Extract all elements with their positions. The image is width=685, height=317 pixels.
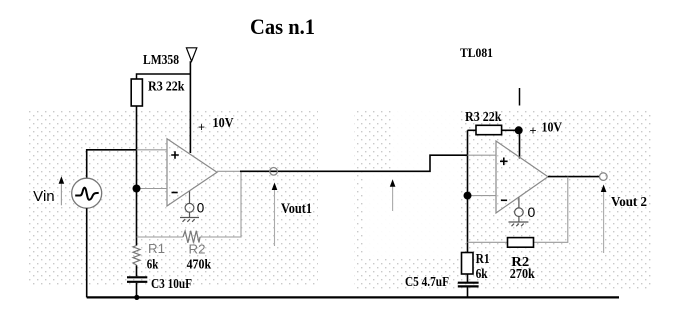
wire R3 right: right lead <box>502 129 519 131</box>
output wire stage 1 to stage 2 <box>240 155 468 171</box>
terminal Vout2 <box>600 173 608 181</box>
ground U2 <box>509 198 529 227</box>
terminal Vout1 <box>270 168 278 176</box>
op-amp U2 triangle <box>496 141 548 213</box>
main vertical right <box>467 130 469 252</box>
wire R1 to C3 <box>136 265 138 276</box>
arrow Vin <box>60 183 62 206</box>
white notch in right workspace <box>392 110 460 172</box>
capacitor C3 <box>127 276 147 278</box>
wire R3 bottom down to R1 <box>136 106 138 246</box>
svg-text:0: 0 <box>197 201 205 216</box>
resistor R1 (left) zigzag <box>133 246 140 266</box>
svg-text:R1: R1 <box>148 241 165 256</box>
wire R3 right: left lead <box>468 129 477 131</box>
svg-text:R2: R2 <box>189 242 206 257</box>
op-amp U2 noninverting stub <box>468 154 497 156</box>
junction dot supply node <box>515 126 523 134</box>
op-amp U1 noninverting stub <box>137 149 168 151</box>
svg-text:6k: 6k <box>476 266 488 281</box>
dotted workspace right <box>354 110 652 289</box>
op-amp U2 - marker <box>501 199 507 201</box>
svg-text:+: + <box>198 120 205 134</box>
op-amp U1 inverting stub <box>137 188 168 190</box>
svg-text:C5 4.7uF: C5 4.7uF <box>405 274 449 289</box>
wire source bottom to rail <box>86 208 88 297</box>
wire R1 to C5 <box>467 274 469 282</box>
svg-text:10V: 10V <box>542 120 563 135</box>
op-amp U1 triangle <box>167 139 217 206</box>
resistor R3 (right) <box>476 125 502 134</box>
resistor R3 (left) <box>131 79 142 106</box>
source Vin waveform <box>75 188 99 200</box>
op-amp U1 + marker <box>171 151 179 159</box>
svg-text:C3 10uF: C3 10uF <box>151 277 192 292</box>
svg-text:10V: 10V <box>213 115 234 130</box>
resistor R1 (right) <box>462 253 474 275</box>
dotted workspace left <box>28 110 318 286</box>
svg-text:6k: 6k <box>147 256 159 271</box>
wire Vin to noninverting input <box>87 150 137 178</box>
svg-text:270k: 270k <box>510 266 535 281</box>
junction dot inverting node U1 <box>133 185 141 193</box>
feedback path U1 <box>200 171 241 237</box>
arrow mid <box>392 186 394 212</box>
svg-text:+: + <box>530 124 537 138</box>
svg-text:Cas n.1: Cas n.1 <box>250 14 315 39</box>
wire R3 top <box>137 74 191 80</box>
arrow Vout2 <box>603 191 605 254</box>
svg-text:LM358: LM358 <box>143 52 179 67</box>
svg-text:Vout 2: Vout 2 <box>611 195 647 210</box>
svg-text:TL081: TL081 <box>460 45 493 60</box>
wire supply to op-amp U2 <box>519 130 521 158</box>
junction dot inverting node U2 <box>464 192 472 200</box>
resistor R2 (right) <box>508 238 534 248</box>
dangling supply stub <box>519 88 521 106</box>
svg-text:R3 22k: R3 22k <box>148 79 185 94</box>
junction dot on rail <box>134 295 139 300</box>
ground U1 <box>180 191 199 222</box>
feedback path U2 <box>534 177 568 243</box>
op-amp U1 - marker <box>172 192 178 194</box>
capacitor C5 <box>458 282 479 284</box>
arrow Vout1 <box>274 188 276 246</box>
svg-text:0: 0 <box>528 204 536 220</box>
supply antenna symbol <box>186 48 196 61</box>
svg-text:R1: R1 <box>476 251 490 266</box>
output wire U2 <box>548 176 600 178</box>
resistor R2 (left) zigzag <box>183 231 200 243</box>
op-amp U2 inverting stub <box>468 195 497 197</box>
svg-text:R3 22k: R3 22k <box>465 109 502 124</box>
svg-text:470k: 470k <box>187 256 212 271</box>
source Vin circle <box>72 178 102 208</box>
op-amp U2 + marker <box>500 158 508 166</box>
svg-text:Vout1: Vout1 <box>281 201 312 217</box>
op-amp U1 output stub <box>217 170 241 172</box>
ground rail <box>87 296 619 298</box>
wire supply vertical to op-amp U1 <box>189 61 191 153</box>
svg-text:Vin: Vin <box>33 188 55 205</box>
